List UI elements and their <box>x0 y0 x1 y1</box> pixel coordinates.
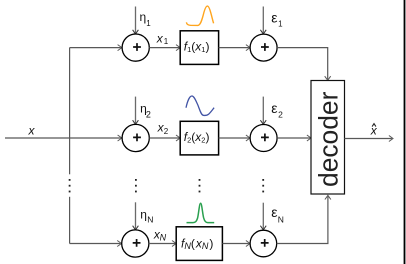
wire input x to summer A2 <box>5 135 122 141</box>
svg-text:ε: ε <box>271 204 277 220</box>
summer A1 <box>122 34 149 61</box>
label xN <box>153 227 167 242</box>
noise arrow eta1 <box>133 7 139 35</box>
label etaN <box>140 208 153 225</box>
border line right edge <box>404 0 406 264</box>
svg-text:2: 2 <box>278 110 283 120</box>
wire B3 to decoder bottom <box>277 195 331 243</box>
pdf curve P1 (orange skewed) <box>186 6 213 25</box>
junction dots column (branch ellipsis) <box>69 179 71 192</box>
svg-text:1: 1 <box>146 19 151 28</box>
svg-text:1: 1 <box>278 20 283 29</box>
svg-text:2: 2 <box>146 110 151 120</box>
wire A2 to block F2 <box>149 135 180 141</box>
noise arrow eta2 <box>133 97 139 125</box>
block F2 <box>180 121 218 155</box>
noise arrow epsN <box>260 203 266 230</box>
wire branch to summer A3 <box>70 241 122 247</box>
ellipsis column under summer B <box>262 179 264 192</box>
svg-text:x: x <box>156 32 164 46</box>
label eta2 <box>140 102 151 120</box>
svg-text:x: x <box>370 124 378 138</box>
label x2 <box>157 121 169 136</box>
pdf curve PN (green spike) <box>187 203 215 222</box>
label eta1 <box>140 10 152 28</box>
wire branch vertical (lower segment) <box>69 197 71 244</box>
decoder U1 <box>311 81 345 195</box>
wire A1 to block F1 <box>149 45 180 51</box>
summer A3 <box>122 230 149 257</box>
summer A2 <box>122 124 149 151</box>
svg-text:x: x <box>28 123 36 137</box>
label x1 <box>156 32 169 46</box>
wire decoder output <box>344 136 393 142</box>
wire branch to summer A1 <box>70 45 122 51</box>
summer B2 <box>250 125 277 152</box>
wire B2 to decoder left <box>277 135 311 141</box>
noise arrow etaN <box>133 202 139 230</box>
block FN <box>176 227 222 261</box>
label eps1 <box>271 10 283 29</box>
wire B1 to decoder top <box>277 48 331 81</box>
svg-text:1: 1 <box>164 37 169 46</box>
svg-text:ε: ε <box>271 100 277 116</box>
svg-text:decoder: decoder <box>314 91 344 187</box>
label eps2 <box>271 100 283 119</box>
noise arrow eps2 <box>260 97 266 125</box>
wire A3 to block FN <box>149 241 176 247</box>
svg-text:N: N <box>147 214 153 224</box>
svg-text:η: η <box>140 10 147 24</box>
node xhat (output label) <box>370 124 378 138</box>
svg-text:ε: ε <box>271 10 277 26</box>
wire F1 to summer B1 <box>219 45 250 51</box>
svg-text:2: 2 <box>164 127 169 136</box>
wire FN to summer B3 <box>222 241 250 247</box>
wire branch vertical (upper segment) <box>69 48 71 175</box>
wire F2 to summer B2 <box>219 135 250 141</box>
ellipsis column under summer A <box>135 179 137 192</box>
svg-text:N: N <box>160 232 167 242</box>
block F1 <box>180 31 218 65</box>
label epsN <box>271 204 284 224</box>
ellipsis column under block F <box>199 179 201 192</box>
svg-text:η: η <box>140 208 147 222</box>
noise arrow eps1 <box>260 7 266 35</box>
svg-text:N: N <box>278 214 284 224</box>
summer B1 <box>250 34 277 61</box>
pdf curve P2 (blue sine) <box>186 96 214 115</box>
summer B3 <box>250 230 277 257</box>
